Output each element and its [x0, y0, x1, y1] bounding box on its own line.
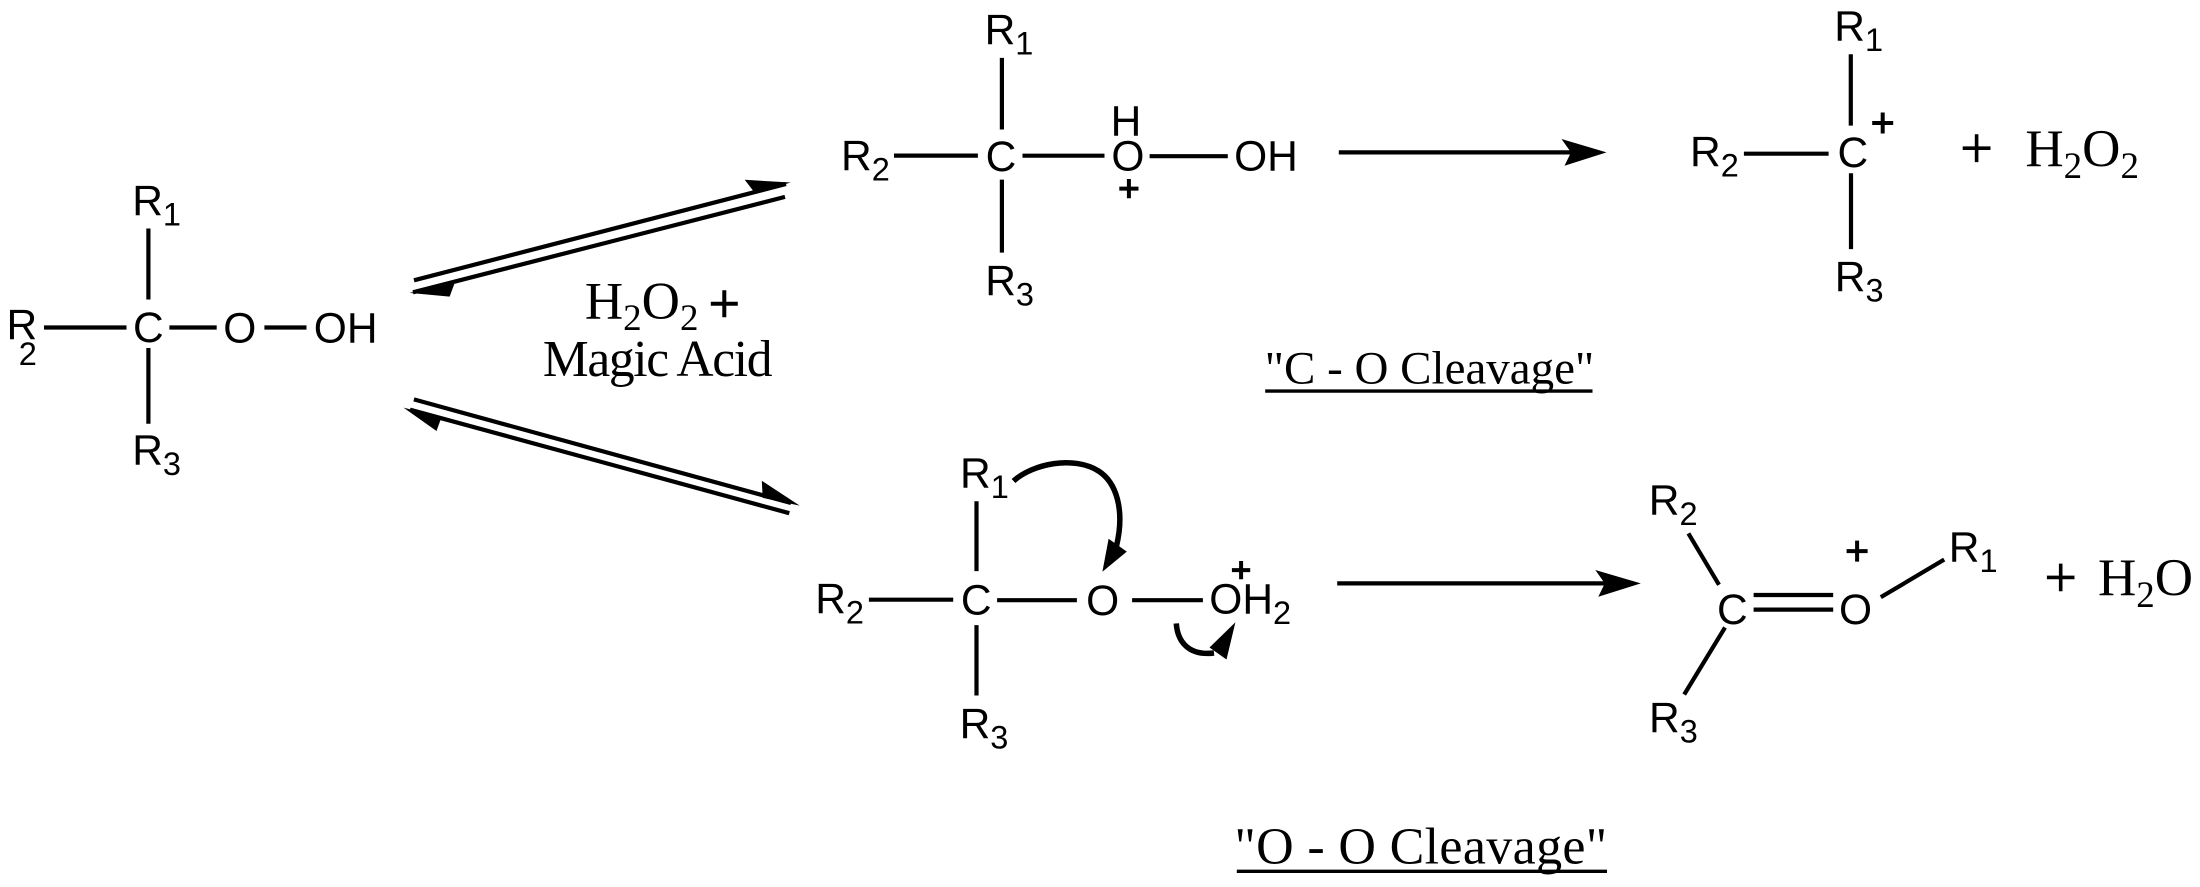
svg-text:O: O — [223, 306, 256, 353]
svg-text:O: O — [1111, 134, 1144, 181]
svg-text:C: C — [1717, 587, 1748, 634]
svg-text:"C - O Cleavage": "C - O Cleavage" — [1265, 343, 1594, 395]
svg-text:O: O — [1839, 587, 1872, 634]
svg-text:C: C — [986, 134, 1017, 181]
svg-text:O: O — [1086, 578, 1119, 625]
svg-text:OH: OH — [314, 305, 378, 352]
svg-text:C: C — [133, 305, 164, 352]
svg-text:Magic Acid: Magic Acid — [543, 331, 773, 388]
svg-text:2: 2 — [19, 336, 37, 372]
svg-text:C: C — [961, 578, 992, 625]
svg-text:"O - O Cleavage": "O - O Cleavage" — [1235, 819, 1608, 876]
svg-text:OH: OH — [1234, 134, 1298, 181]
svg-text:C: C — [1838, 130, 1869, 177]
